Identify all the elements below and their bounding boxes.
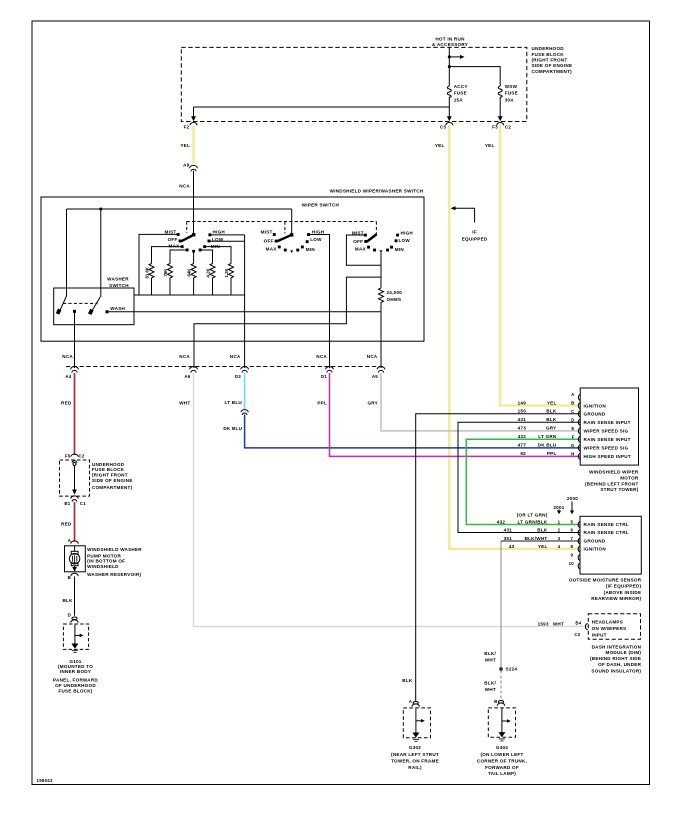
wire common junction down to pin A5 (380, 312, 382, 368)
switch 2 contact MIST (273, 233, 276, 236)
arc contact wire to resistor R2 (170, 250, 187, 264)
pump motor symbol (74, 546, 76, 552)
svg-text:RAIL): RAIL) (408, 765, 422, 770)
svg-text:(BEHIND LEFT FRONT: (BEHIND LEFT FRONT (585, 482, 639, 487)
connector B1 C1 halves (71, 496, 78, 502)
switch 3 contact MIST (364, 234, 367, 237)
svg-text:G: G (571, 443, 575, 448)
switch 1 arm (181, 234, 195, 243)
switch 2 contact OFF (275, 240, 278, 243)
svg-text:PANEL, FORWARD: PANEL, FORWARD (53, 677, 98, 682)
svg-text:WHT: WHT (553, 621, 564, 626)
resistor R3 64K (191, 264, 196, 296)
switch 3 contact LOW (395, 239, 398, 242)
svg-text:NCA: NCA (62, 354, 73, 359)
svg-text:& ACCESSORY: & ACCESSORY (432, 42, 468, 47)
svg-text:431: 431 (518, 417, 527, 422)
svg-text:9: 9 (570, 553, 573, 558)
svg-text:432: 432 (518, 434, 527, 439)
svg-text:NCA: NCA (230, 354, 241, 359)
svg-text:BLK/: BLK/ (484, 681, 496, 686)
svg-text:WIPER SPEED SIG: WIPER SPEED SIG (584, 429, 629, 434)
svg-text:INPUT: INPUT (592, 633, 607, 638)
windshield wiper motor box (580, 388, 638, 465)
svg-text:24,000: 24,000 (387, 290, 403, 295)
svg-text:WINDSHIELD WASHER: WINDSHIELD WASHER (87, 547, 142, 552)
svg-text:OF UNDERHOOD: OF UNDERHOOD (55, 683, 96, 688)
svg-text:TAIL LAMP): TAIL LAMP) (488, 771, 516, 776)
washer output contact to pin A4 (73, 310, 76, 313)
arrow to other circuits (460, 55, 465, 59)
connector F5 C2 halves (71, 454, 78, 463)
svg-text:5: 5 (570, 519, 573, 524)
WASH contact (106, 310, 109, 313)
svg-text:OFF: OFF (264, 239, 274, 244)
svg-text:MAX: MAX (266, 246, 278, 251)
switch 2 arm (277, 234, 292, 243)
svg-text:8: 8 (570, 544, 573, 549)
svg-text:FUSE: FUSE (505, 91, 518, 96)
svg-text:C2: C2 (505, 125, 512, 130)
svg-text:2000: 2000 (567, 496, 578, 501)
wire DK BLU circuit 477 to wiper motor pin G (245, 415, 581, 448)
junction washer feed (99, 208, 102, 211)
svg-text:A5: A5 (372, 374, 378, 379)
svg-text:4.2K: 4.2K (206, 268, 211, 278)
svg-text:A4: A4 (65, 374, 71, 379)
switch 3 contact OFF (364, 240, 367, 243)
svg-text:64K: 64K (187, 268, 192, 277)
svg-text:FORWARD OF: FORWARD OF (485, 765, 519, 770)
svg-text:MIN: MIN (395, 247, 405, 252)
wire YEL circuit 149 from WSW fuse F3-C2 to wiper motor pin B (500, 125, 580, 406)
svg-text:OHMS: OHMS (387, 297, 402, 302)
switch 1 arc contacts (186, 249, 189, 252)
svg-text:MIST: MIST (352, 231, 364, 236)
wire WHT circuit 1593 from switch pin A6 to DIM headlamps-on input (194, 373, 589, 627)
svg-text:432: 432 (497, 519, 506, 524)
resistor R5 1.2K (229, 264, 234, 296)
svg-text:WINDSHIELD WIPER: WINDSHIELD WIPER (589, 470, 639, 475)
wire branch to WSW fuse (449, 67, 500, 86)
fuse ACCY 15A symbol (447, 86, 451, 97)
svg-text:431: 431 (504, 527, 513, 532)
svg-text:HIGH SPEED INPUT: HIGH SPEED INPUT (584, 454, 631, 459)
wire switch1 common down to pin D3 (244, 235, 246, 368)
svg-text:BLK: BLK (546, 417, 557, 422)
switch 1 LOW wire (210, 240, 245, 242)
washer switch arm 2 (91, 297, 100, 313)
svg-text:CORNER OF TRUNK,: CORNER OF TRUNK, (477, 758, 527, 763)
svg-text:DK BLU: DK BLU (538, 443, 557, 448)
connector F3 C2 half (497, 123, 504, 126)
svg-text:SIDE OF ENGINE: SIDE OF ENGINE (92, 478, 133, 483)
svg-text:GROUND: GROUND (584, 412, 606, 417)
switch 2 arc contacts (284, 249, 287, 252)
resistor R2 76K (168, 264, 173, 296)
svg-text:149: 149 (518, 400, 527, 405)
svg-text:COMPARTMENT): COMPARTMENT) (92, 485, 133, 490)
svg-text:150: 150 (518, 409, 527, 414)
svg-text:B: B (68, 575, 71, 580)
switch 1 contact MIST (177, 233, 180, 236)
svg-text:D1: D1 (321, 374, 327, 379)
svg-text:NCA: NCA (179, 183, 190, 188)
svg-text:198043: 198043 (37, 778, 53, 783)
wire BLK circuit 150 motor pin C ground to G302 (416, 414, 581, 702)
svg-text:LOW: LOW (310, 237, 322, 242)
svg-text:IF: IF (472, 230, 477, 235)
svg-text:RED: RED (61, 521, 72, 526)
WASH output wire from washer switch to resistor bottom junction (107, 311, 381, 313)
switch 2 HIGH wire to pin D1 (310, 235, 330, 369)
svg-text:NCA: NCA (367, 354, 378, 359)
washer switch linkage dashed (63, 302, 98, 304)
svg-text:WSW: WSW (505, 84, 518, 89)
switch 2 contact MIN (301, 246, 304, 249)
svg-text:DK BLU: DK BLU (223, 426, 242, 431)
svg-text:LT BLU: LT BLU (225, 400, 243, 405)
wire branch to pin A6 white circuit (194, 277, 381, 368)
svg-text:F2: F2 (184, 125, 190, 130)
svg-text:STRUT TOWER): STRUT TOWER) (600, 487, 638, 492)
outside moisture sensor block (557, 502, 641, 575)
switch 1 MIN wire to resistor R5 (206, 247, 232, 264)
svg-text:MAX: MAX (355, 247, 367, 252)
svg-text:TOWER, ON FRAME: TOWER, ON FRAME (391, 758, 439, 763)
svg-text:SWITCH: SWITCH (109, 283, 129, 288)
svg-text:F: F (572, 434, 575, 439)
svg-text:NCA: NCA (179, 354, 190, 359)
svg-text:BLK: BLK (537, 527, 548, 532)
resistor R1 81.6K (149, 264, 154, 296)
svg-text:OFF: OFF (353, 239, 363, 244)
svg-text:LT GRN/BLK: LT GRN/BLK (518, 519, 548, 524)
connector pin A5 halves (377, 367, 385, 373)
svg-text:C: C (571, 409, 575, 414)
sensor pin arcs 1-4, 9, 10 (578, 521, 580, 527)
svg-text:10: 10 (569, 561, 575, 566)
svg-text:RAIN SENSE CTRL: RAIN SENSE CTRL (584, 522, 629, 527)
resistor ladder bottom bus (134, 294, 245, 296)
svg-text:A9: A9 (183, 162, 190, 167)
node HOT IN RUN & ACCESSORY feed wire (448, 47, 450, 86)
wire NCA from A9 to switch box (193, 171, 195, 197)
svg-text:UNDERHOOD: UNDERHOOD (532, 46, 565, 51)
washer arm 2 contact blob (88, 309, 94, 315)
wire BLK pump to ground G101 (74, 577, 76, 616)
svg-text:EQUIPPED: EQUIPPED (462, 236, 488, 241)
switch 3 common vertical to 24000 ohm resistor (380, 252, 382, 288)
svg-text:WHT: WHT (179, 401, 190, 406)
svg-text:H: H (571, 452, 574, 457)
IF EQUIPPED pointer arrow (453, 208, 475, 222)
wire BLK/WHT circuit 351 moisture sensor ground to splice S224 (500, 541, 502, 668)
G101 dashed box (63, 624, 88, 649)
svg-text:GRY: GRY (546, 426, 557, 431)
wire F2 feed to wiper switch 1 pivot (193, 197, 195, 235)
wiper motor connector block (416, 388, 639, 701)
wiper switch 2 pivot feed (291, 209, 293, 235)
connector pin A6 halves (190, 367, 198, 373)
wire bus to connector F2 with arrow (194, 107, 450, 119)
fuse block internal through-circuit with arrow (73, 463, 76, 466)
svg-text:D: D (68, 612, 71, 617)
pump pin B arc (71, 573, 78, 576)
wire RED from fuse block C1 to washer pump pin A (74, 502, 76, 542)
svg-text:YEL: YEL (485, 143, 495, 148)
svg-text:E: E (571, 426, 574, 431)
switch 1 contact MAX (181, 245, 184, 248)
svg-text:OFF: OFF (168, 237, 178, 242)
svg-text:2: 2 (558, 527, 561, 532)
svg-text:MIST: MIST (165, 230, 177, 235)
svg-text:BLK: BLK (62, 598, 73, 603)
svg-text:ACCY: ACCY (454, 84, 468, 89)
svg-text:OF DASH, UNDER: OF DASH, UNDER (598, 662, 641, 667)
svg-text:C3: C3 (440, 125, 447, 130)
svg-text:HIGH: HIGH (401, 231, 414, 236)
svg-text:YEL: YEL (180, 143, 190, 148)
svg-text:D3: D3 (235, 374, 241, 379)
resistor R4 4.2K (210, 264, 215, 296)
connector pin D1 halves (326, 367, 334, 373)
DIM pin arc (585, 623, 587, 629)
washer arm 1 contact blob (56, 309, 62, 315)
svg-text:FUSE: FUSE (454, 91, 467, 96)
svg-text:(ABOVE INSIDE: (ABOVE INSIDE (604, 590, 642, 595)
fuse WSW 30A symbol (498, 86, 502, 97)
svg-text:B: B (494, 699, 497, 704)
G404 dashed box (488, 708, 515, 737)
svg-text:ON W/WIPERS: ON W/WIPERS (592, 626, 627, 631)
G404 ground symbol (501, 708, 503, 733)
G101 pin oval and arc (72, 617, 77, 620)
resistor 24000 OHMS (379, 288, 384, 312)
switch 1 contact LOW (208, 240, 211, 243)
svg-text:43: 43 (509, 544, 515, 549)
switch 2 contact MAX (278, 246, 281, 249)
switch 3 contact HIGH (396, 234, 399, 237)
svg-text:4: 4 (558, 544, 561, 549)
svg-text:RAIN SENSE CTRL: RAIN SENSE CTRL (584, 530, 629, 535)
svg-text:D: D (571, 417, 574, 422)
svg-text:HIGH: HIGH (312, 229, 325, 234)
washer switch box (54, 288, 134, 325)
switch 1 contact MIN (203, 245, 206, 248)
wire YEL from fuse block F2 to connector A9 (192, 125, 194, 164)
svg-text:WASH: WASH (110, 306, 125, 311)
svg-text:B1: B1 (64, 501, 70, 506)
svg-text:UNDERHOOD: UNDERHOOD (92, 462, 125, 467)
wire LT BLU from switch pin D3 to in-line connector (244, 373, 246, 410)
svg-text:OUTSIDE MOISTURE SENSOR: OUTSIDE MOISTURE SENSOR (569, 577, 642, 582)
motor pin arcs A-H (578, 394, 580, 400)
connector pin D3 halves (241, 367, 249, 373)
svg-text:NCA: NCA (316, 354, 327, 359)
underhood fuse block dashed box (left) (60, 460, 90, 496)
svg-text:BLK: BLK (546, 409, 557, 414)
G302 dashed box (403, 708, 430, 738)
pump pin A arc (71, 541, 78, 544)
svg-text:PPL: PPL (317, 401, 327, 406)
connector pin A4 halves (71, 367, 79, 373)
svg-text:SOUND INSULATOR): SOUND INSULATOR) (591, 669, 641, 674)
svg-text:C2: C2 (79, 453, 85, 458)
switch 1 MAX wire to resistor R1 (152, 247, 182, 264)
svg-text:BLK: BLK (402, 678, 413, 683)
svg-text:WASHER: WASHER (107, 276, 129, 281)
connector F2 half (190, 123, 197, 126)
splice S224 (499, 667, 503, 671)
svg-text:YEL: YEL (538, 544, 548, 549)
svg-text:15A: 15A (454, 97, 464, 102)
underhood fuse block dashed box (top) (181, 47, 527, 121)
svg-text:30A: 30A (505, 97, 515, 102)
svg-text:2001: 2001 (553, 505, 564, 510)
svg-text:81.6K: 81.6K (145, 266, 150, 278)
svg-text:WIPER SPEED SIG: WIPER SPEED SIG (584, 446, 629, 451)
svg-text:(NEAR LEFT STRUT: (NEAR LEFT STRUT (391, 752, 439, 757)
svg-text:G302: G302 (409, 745, 421, 750)
switch 3 contact MIN (390, 246, 393, 249)
svg-text:PPL: PPL (547, 451, 557, 456)
svg-text:WHT: WHT (485, 687, 496, 692)
moisture sensor box (580, 516, 641, 574)
svg-text:WINDSHIELD WIPER/WASHER SWITCH: WINDSHIELD WIPER/WASHER SWITCH (330, 188, 424, 193)
G404 pin oval and arc (498, 701, 503, 704)
svg-text:DASH INTEGRATION: DASH INTEGRATION (592, 645, 642, 650)
arc contact wire to resistor R4 (201, 250, 213, 264)
svg-text:92: 92 (520, 451, 526, 456)
svg-text:477: 477 (518, 443, 527, 448)
wire BLK/WHT from splice S224 to ground G404 (500, 671, 502, 700)
svg-text:B: B (571, 401, 574, 406)
wire GRY circuit 473 from switch pin A5 to wiper motor pin E (381, 373, 580, 431)
in-line connector A9 on yellow wire (190, 165, 198, 171)
switch 1 MIST wire to ladder left leg (139, 234, 178, 295)
svg-text:YEL: YEL (547, 400, 557, 405)
svg-text:6: 6 (570, 527, 573, 532)
svg-text:WHT: WHT (485, 658, 496, 663)
svg-text:MODULE (DIM): MODULE (DIM) (606, 650, 642, 655)
svg-text:1.2K: 1.2K (224, 268, 229, 278)
switch connector row (66, 367, 385, 373)
svg-text:RED: RED (61, 401, 72, 406)
svg-text:351: 351 (504, 536, 513, 541)
G302 pin oval and arc (413, 702, 418, 705)
wire YEL circuit 43 from ACCY fuse C3 down to moisture sensor ignition (449, 125, 580, 549)
svg-text:G404: G404 (496, 745, 508, 750)
wire PPL circuit 92 from switch pin D1 to wiper motor pin H (330, 373, 581, 456)
model year 2000 arrow (571, 502, 573, 512)
svg-text:C1: C1 (80, 501, 86, 506)
switch 2 contact HIGH (307, 233, 310, 236)
svg-text:MOTOR: MOTOR (620, 475, 639, 480)
DIM dashed box (588, 614, 640, 640)
ground G101 (63, 617, 88, 652)
svg-text:S224: S224 (506, 667, 518, 672)
switch 2 contact LOW (306, 240, 309, 243)
svg-text:MIST: MIST (261, 229, 273, 234)
svg-text:1593: 1593 (538, 621, 549, 626)
svg-text:WASHER RESERVOIR): WASHER RESERVOIR) (87, 572, 141, 577)
wiper switch 1 (delay) (177, 233, 212, 253)
svg-text:F3: F3 (492, 125, 498, 130)
svg-text:1: 1 (558, 519, 561, 524)
svg-text:HIGH: HIGH (213, 230, 226, 235)
washer switch (54, 288, 134, 325)
wiper switch 2 (high/low) (273, 233, 310, 253)
ground G302 (403, 702, 430, 742)
internal feed bus to washer switch and wiper switch 2 (67, 209, 292, 297)
svg-text:F5: F5 (65, 453, 71, 458)
svg-text:WIPER SWITCH: WIPER SWITCH (302, 203, 340, 208)
switch 3 contact MAX (367, 246, 370, 249)
svg-text:WINDSHIELD: WINDSHIELD (87, 564, 119, 569)
windshield wiper/washer switch outer box (41, 197, 424, 341)
svg-text:(ON LOWER LEFT: (ON LOWER LEFT (480, 752, 523, 757)
svg-text:MAX: MAX (169, 244, 181, 249)
svg-text:YEL: YEL (435, 143, 445, 148)
svg-text:(RIGHT FRONT: (RIGHT FRONT (532, 58, 568, 63)
svg-text:SIDE OF ENGINE: SIDE OF ENGINE (532, 63, 573, 68)
svg-text:(BEHIND RIGHT SIDE: (BEHIND RIGHT SIDE (590, 656, 641, 661)
svg-text:FUSE BLOCK): FUSE BLOCK) (58, 689, 92, 694)
G101 ground symbol (74, 625, 76, 645)
svg-text:A6: A6 (184, 374, 190, 379)
svg-text:B4: B4 (575, 621, 581, 626)
mechanical linkage dashed line (187, 222, 377, 235)
washer switch arm 1 (59, 297, 66, 313)
wire washer contact down to pin A4 (74, 312, 76, 369)
switch 1 HIGH wire to pin D3 vertical (211, 234, 245, 236)
wire BLK circuit 431 motor pin D to moisture sensor pin 2 (458, 422, 580, 532)
G302 ground symbol (415, 708, 417, 733)
svg-text:7: 7 (570, 536, 573, 541)
svg-text:HEADLAMPS: HEADLAMPS (592, 619, 623, 624)
ground G404 (488, 701, 515, 741)
svg-text:BLK/WHT: BLK/WHT (525, 536, 548, 541)
svg-text:3: 3 (558, 536, 561, 541)
switch 3 arc contacts (373, 249, 376, 252)
connector dashed line (66, 366, 385, 368)
wire WSW fuse to connector F3 with arrow (499, 97, 501, 119)
svg-text:(IN BOTTOM OF: (IN BOTTOM OF (87, 559, 125, 564)
junction on accessory feed (449, 56, 460, 58)
svg-text:MIN: MIN (306, 247, 316, 252)
wire LT GRN circuit 432 wiper motor pin F to moisture sensor pin 1 (466, 439, 580, 524)
svg-text:A: A (409, 699, 413, 704)
dash integration module (585, 614, 640, 640)
switch 3 arm (366, 233, 377, 243)
svg-text:LOW: LOW (212, 237, 224, 242)
washer pump box (65, 546, 86, 572)
model year 2001 arrow (558, 510, 560, 512)
svg-text:IGNITION: IGNITION (584, 403, 607, 408)
wire RED circuit from switch pin A4 to underhood fuse block F5 (74, 373, 76, 455)
svg-text:REARVIEW MIRROR): REARVIEW MIRROR) (591, 596, 641, 601)
svg-text:HOT IN RUN: HOT IN RUN (435, 37, 465, 42)
svg-text:473: 473 (518, 426, 527, 431)
switch 1 contact OFF (179, 240, 182, 243)
connector C3 half (446, 123, 453, 126)
svg-text:RAIN SENSE INPUT: RAIN SENSE INPUT (584, 437, 631, 442)
svg-text:C2: C2 (574, 632, 580, 637)
svg-text:76K: 76K (163, 268, 168, 277)
svg-text:FUSE BLOCK: FUSE BLOCK (532, 52, 565, 57)
svg-text:GRY: GRY (367, 401, 378, 406)
